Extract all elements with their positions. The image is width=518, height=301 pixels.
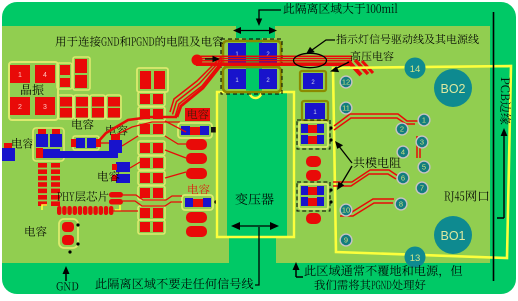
capacitor C-i pads — [62, 222, 74, 232]
PHY chip corner mark 1 — [42, 205, 47, 210]
electrolytic capacitor C-c — [38, 129, 46, 135]
capacitor footprint row C3 — [90, 95, 105, 119]
high-voltage capacitor C1 outline — [302, 101, 328, 121]
callout line from bottom text to strip — [255, 227, 259, 285]
wire: thick power trace under middle column — [97, 117, 177, 143]
capacitor C-h stack — [116, 162, 130, 172]
PHY chip U1 left pad rows — [38, 163, 47, 168]
wire: diagonal bundle to footprints — [170, 56, 222, 112]
RJ45 pin hole 2 — [395, 122, 408, 135]
high-voltage capacitor C2 body — [303, 73, 323, 89]
highlight ellipse on indicator traces — [294, 53, 327, 67]
callout arrows to common-mode resistors — [338, 145, 352, 163]
RJ45 pin hole 6 — [396, 171, 409, 184]
wire: pair to pin 8 — [340, 199, 394, 212]
RJ45 boss hole BO2 — [434, 69, 472, 107]
capacitor C-e below — [36, 148, 43, 158]
annotation 共模电阻 — [354, 157, 401, 168]
svg-text:3: 3 — [43, 104, 47, 111]
capacitor C-i below PHY outline — [59, 219, 78, 248]
crystal pad 4 — [35, 65, 55, 83]
label PCB边缘 (PCB edge, vertical) — [500, 78, 511, 125]
termination footprint M7 — [138, 186, 165, 200]
svg-text:4: 4 — [401, 148, 405, 157]
wire: round pad at bundle end — [192, 55, 203, 66]
termination footprint M1 — [138, 92, 165, 106]
termination footprint M5 — [138, 156, 165, 170]
RJ45 mounting hole 13 — [405, 247, 426, 268]
svg-text:7: 7 — [420, 184, 424, 193]
callout arrow to highlighted traces — [312, 40, 335, 50]
wire: caps to PHY connectors — [98, 142, 109, 144]
svg-text:2: 2 — [400, 125, 404, 134]
capacitor footprint C-b — [73, 57, 90, 90]
RJ45 pin hole 7 — [415, 181, 428, 194]
annotation 此隔离区域不要走任何信号线 — [95, 278, 253, 289]
termination footprint M9 — [138, 220, 165, 234]
capacitor C-g — [111, 134, 120, 141]
RJ45 pin hole 5 — [417, 160, 430, 173]
resistor network RN2 (blue-red-blue) — [182, 195, 213, 210]
pads right of PHY label — [109, 192, 123, 198]
electrolytic capacitor pair outline — [33, 128, 64, 161]
svg-text:13: 13 — [410, 253, 421, 264]
high-voltage capacitor C2 outline — [300, 71, 326, 91]
component B pad 2 — [259, 69, 277, 89]
svg-text:14: 14 — [410, 64, 421, 75]
svg-text:5: 5 — [422, 163, 426, 172]
dashed courtyard around GND/PGND parts — [221, 39, 282, 94]
capacitor footprint pair M0 — [137, 68, 168, 92]
svg-text:12: 12 — [342, 78, 350, 87]
isolation strip middle segment — [246, 38, 262, 92]
RJ45 pin hole 9 — [339, 233, 352, 246]
label RJ45网口 (RJ45 port) — [445, 190, 489, 202]
capacitor footprint row C1 — [58, 95, 73, 119]
callout arrow to resistor-capacitor pair — [205, 58, 215, 60]
transformer pin pad L5 — [186, 226, 207, 237]
wire: connectors middle column to transformer pins — [165, 121, 186, 132]
component A pad 2 — [259, 43, 277, 63]
annotation 此区域通常不覆地和电源，但 — [304, 265, 462, 278]
svg-text:1: 1 — [422, 116, 426, 125]
arrow before bottom-right note — [296, 267, 303, 277]
transformer pin pad L2 — [186, 153, 207, 164]
svg-text:BO1: BO1 — [440, 229, 465, 243]
transformer T1 outline — [217, 92, 294, 237]
component B pad 1 — [228, 69, 246, 89]
label 晶振 (crystal) — [21, 84, 44, 95]
transformer pin pad L4 — [186, 212, 207, 223]
wire: horizontal signal bundle — [196, 55, 352, 57]
label 电容 (below PHY) — [25, 226, 46, 237]
termination footprint M2 — [138, 107, 165, 121]
annotation 高压电容 — [351, 51, 394, 61]
svg-text:4: 4 — [43, 72, 47, 79]
label GND — [57, 282, 79, 290]
annotation 此隔离区域大于100mil — [283, 3, 397, 14]
svg-text:BO2: BO2 — [440, 82, 465, 96]
GND arrow — [65, 271, 67, 281]
component A pad 1 — [228, 43, 246, 63]
termination footprint M8 — [138, 206, 165, 220]
svg-text:3: 3 — [420, 138, 424, 147]
RJ45 pin hole 8 — [394, 197, 407, 210]
crystal pad 2 — [10, 97, 30, 115]
label 电容 (near PHY right) — [98, 171, 119, 182]
RJ45 connector region outline — [333, 66, 511, 258]
isolation resistor-capacitor pair khaki outline A — [223, 41, 281, 66]
wire: differential pair to pin 1 — [334, 114, 418, 126]
resistor network RN1 (blue-red-blue) — [178, 123, 212, 138]
wire: red hatch traces (thick diagonals) — [348, 61, 361, 75]
dashed courtyard CM2 — [297, 182, 330, 211]
transformer pin pad L3 — [186, 168, 207, 179]
dimension arrow isolation gap top — [236, 30, 274, 32]
RJ45 pin hole 11 — [339, 101, 352, 114]
svg-text:11: 11 — [342, 104, 350, 113]
PCB edge arrow — [497, 133, 504, 218]
capacitor C-edge at left border — [4, 143, 12, 149]
capacitor pair C-f — [73, 136, 99, 150]
RJ45 pin hole 1 — [417, 113, 430, 126]
capacitor footprint row C4 — [106, 95, 121, 119]
termination footprint M4 — [138, 141, 165, 155]
svg-text:6: 6 — [401, 174, 405, 183]
bottom-layer power trace (blue) — [58, 151, 118, 158]
RJ45 pin hole 10 — [339, 203, 352, 216]
callout arrow to high-voltage capacitor — [335, 62, 349, 69]
annotation 用于连接GND和PGND的电阻及电容 — [55, 36, 223, 47]
wire: differential pair to pin 6 — [333, 170, 398, 182]
capacitor footprint C-a — [57, 63, 72, 89]
RJ45 boss hole BO1 — [434, 216, 472, 254]
transformer pin pad L1 — [186, 139, 207, 150]
PHY chip corner mark 2 — [115, 205, 120, 210]
PHY chip U1 bottom pad row — [57, 206, 61, 215]
label 电容 (red, transformer left) — [188, 184, 209, 195]
label PHY层芯片 (PHY chip) — [57, 191, 108, 202]
isolation strip lower segment — [227, 92, 287, 237]
RJ45 pin hole 4 — [396, 145, 409, 158]
label 电容 (cap row) — [72, 119, 93, 130]
label 电容 (second) — [106, 125, 127, 136]
svg-text:8: 8 — [399, 200, 403, 209]
capacitor C-i via dots — [76, 223, 79, 226]
svg-text:2: 2 — [18, 104, 22, 111]
crystal Y1 outline — [9, 62, 58, 120]
transformer pin pad R3 — [306, 213, 321, 224]
PCB edge line — [493, 12, 495, 281]
dashed courtyard CM1 — [297, 120, 330, 149]
crystal pad 3 — [35, 97, 55, 115]
termination footprint M6 — [138, 171, 165, 185]
label 电容 (dark on red plate) — [188, 109, 209, 119]
RJ45 mounting hole 14 — [405, 58, 426, 79]
isolation strip top segment — [236, 26, 275, 38]
isolation resistor-capacitor pair khaki outline B — [223, 67, 281, 92]
RJ45 pin hole 3 — [415, 135, 428, 148]
electrolytic capacitor C-d — [52, 129, 60, 135]
high-voltage capacitor C1 body — [305, 103, 325, 119]
svg-text:10: 10 — [342, 206, 350, 215]
callout line to isolation gap — [259, 10, 281, 21]
termination footprint M3 — [138, 122, 165, 136]
label 电容 (left edge) — [12, 138, 33, 149]
annotation 指示灯信号驱动线及其电源线 — [336, 34, 478, 44]
svg-text:1: 1 — [18, 72, 22, 79]
wire: PHY to footprint connectors — [123, 195, 182, 200]
transformer pin pad R2 — [306, 170, 321, 181]
annotation 我们需将其PGND处理好 — [314, 280, 425, 290]
red label plate upper — [185, 108, 210, 121]
RJ45 pin hole 12 — [339, 75, 352, 88]
capacitor footprint row C2 — [74, 95, 89, 119]
wire: vertical pair pins 3-5 — [416, 136, 418, 158]
common-mode resistor pack CM1 — [299, 122, 328, 147]
label 变压器 (transformer) — [235, 193, 273, 205]
svg-text:9: 9 — [344, 236, 348, 245]
PCB ground-pour region (olive copper area) — [2, 26, 490, 263]
transformer pin pad R1 — [306, 156, 321, 167]
crystal pad 1 — [10, 65, 30, 83]
common-mode resistor pack CM2 — [299, 184, 328, 209]
dimension arrow isolation strip bottom — [236, 225, 274, 227]
